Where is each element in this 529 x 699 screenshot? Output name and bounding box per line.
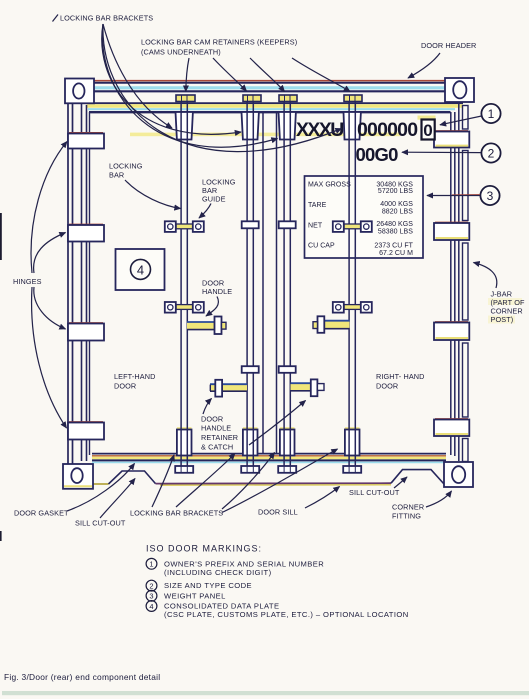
foot bar4 bbox=[343, 466, 361, 473]
foot bar3 bbox=[278, 466, 296, 473]
leader cam to cap1 bbox=[186, 58, 189, 92]
hinge 1 bbox=[68, 133, 104, 149]
cam cap bar2 bbox=[243, 95, 261, 102]
leader hinges to hinge1 bbox=[31, 142, 67, 274]
wire: header second dark line bbox=[94, 90, 445, 92]
label sill cut-out left bbox=[75, 479, 135, 528]
cam cap bar3 bbox=[279, 95, 297, 102]
wire: door sill baseline middle bbox=[156, 482, 392, 484]
svg-text:RIGHT- HAND: RIGHT- HAND bbox=[376, 372, 425, 381]
locking bar 4 bbox=[349, 102, 355, 467]
label door handle retainer & catch bbox=[201, 399, 306, 452]
leader hinges to hinge4 bbox=[32, 287, 67, 428]
svg-text:(INCLUDING CHECK DIGIT): (INCLUDING CHECK DIGIT) bbox=[164, 568, 272, 577]
svg-text:LOCKING BAR CAM RETAINERS (KEE: LOCKING BAR CAM RETAINERS (KEEPERS) bbox=[141, 38, 297, 47]
wire: cyan fringe above door top bbox=[88, 108, 455, 110]
svg-text:2: 2 bbox=[149, 581, 153, 590]
legend item 1 bbox=[146, 558, 157, 569]
locking bar guide bar4 row1 bbox=[333, 221, 372, 232]
keeper bar2 bbox=[242, 112, 259, 140]
label door gasket bbox=[14, 464, 135, 518]
j-bar channel segment 5 bbox=[463, 439, 469, 462]
svg-text:SILL CUT-OUT: SILL CUT-OUT bbox=[349, 488, 400, 497]
svg-text:RETAINER: RETAINER bbox=[201, 433, 238, 442]
sill cut-out right trapezoid bbox=[391, 470, 444, 484]
legend item 4 bbox=[146, 601, 157, 612]
svg-text:HINGES: HINGES bbox=[13, 277, 42, 286]
bottom green scan band bbox=[2, 691, 529, 695]
locking bar 2 bbox=[247, 102, 253, 467]
wire: door bottom orange fringe bbox=[92, 455, 446, 457]
svg-text:4: 4 bbox=[137, 263, 144, 278]
wire: door right edge inner bbox=[450, 112, 452, 455]
label door header bbox=[408, 41, 476, 78]
collar bar2 row3 bbox=[242, 366, 259, 373]
svg-text:TARE: TARE bbox=[308, 202, 327, 209]
svg-text:GUIDE: GUIDE bbox=[202, 195, 226, 204]
wire: left post inner line bbox=[72, 103, 74, 464]
svg-text:3: 3 bbox=[149, 592, 153, 601]
wire: header top dark line bbox=[94, 82, 445, 84]
svg-text:57200 LBS: 57200 LBS bbox=[378, 188, 413, 195]
door handle bar1 bbox=[187, 317, 226, 335]
wire: door bottom dark line lower bbox=[92, 459, 446, 461]
wire: left door right edge (center gap) bbox=[262, 112, 264, 453]
wire: j-bar inner line bbox=[458, 104, 460, 462]
label locking bar guide bbox=[199, 178, 236, 219]
wire: door right edge outer bbox=[454, 112, 456, 456]
legend item 2 bbox=[146, 580, 157, 591]
svg-text:26480 KGS: 26480 KGS bbox=[376, 221, 413, 228]
corner fitting bottom-right bbox=[444, 462, 473, 487]
svg-text:00G0: 00G0 bbox=[356, 144, 399, 165]
label left-hand door bbox=[114, 372, 155, 391]
svg-text:LEFT-HAND: LEFT-HAND bbox=[114, 372, 155, 381]
callout circle 1 bbox=[440, 104, 501, 125]
leader to keeper bar1 bbox=[103, 24, 172, 128]
hinge 3 bbox=[68, 323, 104, 341]
bottom bracket bar3 bbox=[280, 427, 295, 455]
svg-text:BAR: BAR bbox=[109, 171, 124, 180]
leader to keeper bar4 bbox=[103, 24, 342, 152]
svg-text:0: 0 bbox=[423, 121, 432, 140]
wire: door top edge bbox=[89, 111, 451, 113]
wire: yellow band above door top bbox=[87, 104, 464, 108]
wire: door bottom dark line upper bbox=[92, 453, 446, 455]
svg-text:DOOR: DOOR bbox=[201, 415, 223, 424]
svg-text:CORNER: CORNER bbox=[392, 503, 424, 512]
leader cam to cap2 bbox=[213, 58, 247, 91]
svg-text:2373 CU FT: 2373 CU FT bbox=[374, 243, 413, 250]
foot bar2 bbox=[241, 466, 259, 473]
bottom bracket bar1 bbox=[177, 427, 192, 455]
collar bar2 row1 bbox=[242, 221, 259, 228]
svg-text:HANDLE: HANDLE bbox=[202, 287, 232, 296]
svg-text:SIZE AND TYPE CODE: SIZE AND TYPE CODE bbox=[164, 581, 252, 590]
leader hinges to hinge3 bbox=[34, 287, 66, 329]
svg-text:Fig. 3/Door (rear) end compone: Fig. 3/Door (rear) end component detail bbox=[4, 672, 160, 682]
j-bar channel segment 1 bbox=[463, 106, 469, 130]
svg-text:FITTING: FITTING bbox=[392, 512, 421, 521]
wire: right door left edge (center gap) bbox=[276, 112, 278, 453]
wire: header cyan band bbox=[94, 86, 445, 89]
label corner fitting bbox=[392, 491, 452, 521]
locking bar guide bar1 row2 bbox=[165, 302, 204, 313]
j-bar bracket 1 bbox=[434, 131, 469, 148]
label locking bar brackets (top) bbox=[53, 14, 154, 23]
leader cam to cap4 bbox=[292, 58, 350, 92]
collar bar3 row3 bbox=[279, 366, 296, 373]
svg-text:LOCKING BAR BRACKETS: LOCKING BAR BRACKETS bbox=[130, 509, 223, 518]
j-bar bracket 2 bbox=[434, 222, 469, 240]
corner fitting top-left bbox=[65, 79, 94, 104]
bottom bracket bar2 bbox=[243, 427, 258, 455]
svg-text:2: 2 bbox=[488, 147, 495, 161]
scan yellow highlight j-bar label bbox=[488, 298, 522, 305]
svg-text:SILL CUT-OUT: SILL CUT-OUT bbox=[75, 519, 126, 528]
wire: hinge pin line bbox=[81, 103, 83, 461]
keeper bar4 bbox=[344, 112, 361, 140]
svg-text:67.2 CU M: 67.2 CU M bbox=[379, 250, 413, 257]
label locking bar bbox=[109, 162, 181, 209]
locking bar 1 bbox=[181, 102, 187, 467]
bottom bracket bar4 bbox=[345, 427, 360, 455]
svg-text:000000: 000000 bbox=[357, 119, 418, 141]
wire: door left edge outer bbox=[86, 105, 88, 461]
sill cut-out left trapezoid bbox=[109, 471, 156, 484]
svg-text:CU CAP: CU CAP bbox=[308, 243, 335, 250]
leader to keeper bar2 bbox=[102, 24, 241, 134]
wire: upper door frame dark line bbox=[87, 102, 464, 104]
label cam retainers bbox=[141, 38, 297, 57]
svg-text:1: 1 bbox=[488, 107, 495, 121]
locking bar guide bar4 row2 bbox=[333, 302, 372, 313]
leader hinges to hinge2 bbox=[34, 233, 66, 274]
svg-text:HANDLE: HANDLE bbox=[201, 424, 231, 433]
locking bar guide bar1 row1 bbox=[165, 221, 204, 232]
label right-hand door bbox=[376, 372, 425, 391]
svg-text:8820 LBS: 8820 LBS bbox=[382, 209, 413, 216]
svg-text:LOCKING BAR BRACKETS: LOCKING BAR BRACKETS bbox=[60, 14, 153, 23]
svg-text:DOOR: DOOR bbox=[376, 382, 398, 391]
keeper bar1 bbox=[176, 112, 193, 140]
cam cap bar1 bbox=[176, 95, 195, 102]
legend item 3 bbox=[146, 590, 157, 601]
svg-text:4000 KGS: 4000 KGS bbox=[380, 201, 413, 208]
leader to keeper bar3 bbox=[102, 24, 277, 147]
j-bar bracket 3 bbox=[434, 322, 469, 340]
svg-text:DOOR GASKET: DOOR GASKET bbox=[14, 509, 69, 518]
check digit box bbox=[418, 116, 436, 141]
wire: door bottom yellow band bbox=[92, 457, 446, 460]
wire: door bottom cyan fringe bbox=[92, 461, 446, 463]
wire: left post outer line bbox=[67, 103, 69, 464]
svg-text:LOCKING: LOCKING bbox=[109, 162, 143, 171]
label locking bar brackets (bottom) bbox=[130, 449, 338, 518]
svg-text:(CSC PLATE, CUSTOMS PLATE, ETC: (CSC PLATE, CUSTOMS PLATE, ETC.) – OPTIO… bbox=[164, 610, 409, 619]
label door handle bbox=[202, 279, 232, 317]
callout circle 3 bbox=[427, 186, 500, 205]
svg-text:WEIGHT PANEL: WEIGHT PANEL bbox=[164, 591, 226, 600]
locking bar 3 bbox=[284, 102, 290, 467]
door handle retainer and catch bar2 bbox=[210, 380, 247, 397]
svg-text:XXXU: XXXU bbox=[296, 119, 343, 141]
cam cap bar4 bbox=[344, 95, 362, 102]
wire: door sill baseline yellow fringe bbox=[160, 484, 391, 486]
j-bar channel segment 4 bbox=[463, 343, 469, 417]
svg-text:DOOR: DOOR bbox=[114, 382, 136, 391]
svg-text:4: 4 bbox=[149, 602, 153, 611]
svg-text:MAX GROSS: MAX GROSS bbox=[308, 182, 351, 189]
svg-text:DOOR HEADER: DOOR HEADER bbox=[421, 41, 476, 50]
callout box 4 (data plate) bbox=[116, 249, 165, 290]
corner fitting top-right bbox=[445, 78, 474, 102]
svg-text:NET: NET bbox=[308, 223, 323, 230]
svg-text:(CAMS UNDERNEATH): (CAMS UNDERNEATH) bbox=[141, 48, 221, 57]
svg-text:POST): POST) bbox=[491, 315, 514, 324]
svg-text:58380 LBS: 58380 LBS bbox=[378, 229, 413, 236]
leader cam to cap3 bbox=[250, 58, 285, 92]
door handle bar4 bbox=[313, 316, 350, 333]
svg-text:ISO DOOR MARKINGS:: ISO DOOR MARKINGS: bbox=[146, 544, 262, 554]
j-bar channel segment 2 bbox=[463, 151, 469, 221]
j-bar bracket 4 bbox=[434, 419, 469, 436]
wire: header red fringe line bbox=[94, 80, 445, 82]
corner fitting bottom-left bbox=[63, 464, 93, 489]
collar bar3 row1 bbox=[279, 221, 296, 228]
scan edge sliver left bbox=[0, 213, 2, 260]
j-bar channel segment 3 bbox=[463, 243, 469, 320]
label door sill bbox=[258, 487, 340, 517]
foot bar1 bbox=[175, 466, 193, 473]
wire: door left edge inner bbox=[89, 112, 91, 455]
door handle retainer and catch bar3 bbox=[291, 379, 325, 396]
svg-text:3: 3 bbox=[487, 189, 494, 203]
svg-text:DOOR SILL: DOOR SILL bbox=[258, 508, 298, 517]
svg-text:& CATCH: & CATCH bbox=[201, 443, 233, 452]
keeper bar3 bbox=[279, 112, 296, 140]
hinge 4 bbox=[68, 422, 104, 440]
label j-bar bbox=[474, 263, 525, 325]
label sill cut-out right bbox=[349, 477, 407, 497]
callout circle 2 bbox=[402, 143, 501, 162]
wire: sill baseline left stub (yellowish) bbox=[93, 483, 109, 485]
hinge 2 bbox=[68, 224, 104, 241]
svg-text:1: 1 bbox=[149, 560, 153, 569]
soft yellow scan band at keeper bottoms bbox=[130, 133, 400, 137]
